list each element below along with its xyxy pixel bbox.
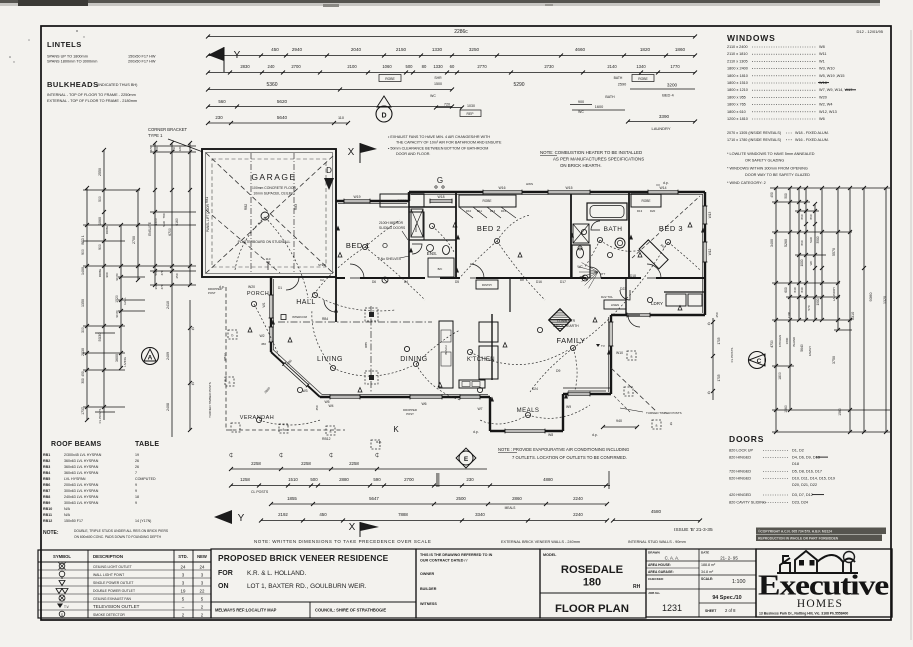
svg-text:RB3: RB3: [43, 465, 50, 469]
svg-text:D15: D15: [501, 209, 507, 213]
svg-text:INTERCOM: INTERCOM: [292, 315, 308, 319]
svg-text:1860: 1860: [675, 47, 686, 52]
svg-text:4580: 4580: [651, 509, 662, 514]
svg-text:2110 x 1810: 2110 x 1810: [727, 52, 748, 56]
svg-text:1800: 1800: [778, 372, 782, 380]
svg-text:BED 1: BED 1: [81, 235, 85, 244]
svg-text:RB9: RB9: [43, 501, 50, 505]
pantry: [476, 280, 498, 289]
svg-text:500: 500: [310, 477, 318, 482]
svg-text:D10, D11, D14, D15, D19: D10, D11, D14, D15, D19: [792, 477, 835, 481]
interior wall bed2/bath: [570, 192, 572, 278]
svg-text:SHR: SHR: [162, 221, 166, 227]
svg-text:ROOF BEAMS: ROOF BEAMS: [51, 441, 101, 448]
svg-text:2830: 2830: [240, 64, 250, 69]
svg-text:DOUBLE POWER OUTLET: DOUBLE POWER OUTLET: [93, 589, 135, 593]
svg-text:450: 450: [770, 192, 774, 198]
svg-text:AREA HOUSE:: AREA HOUSE:: [648, 563, 671, 567]
svg-text:D3, D7, D12: D3, D7, D12: [792, 493, 813, 497]
svg-text:300: 300: [81, 378, 85, 384]
svg-text:D13: D13: [637, 209, 643, 213]
svg-text:720 HINGED: 720 HINGED: [729, 470, 751, 474]
svg-text:d.p.: d.p.: [376, 440, 382, 444]
svg-text:300: 300: [81, 327, 85, 333]
svg-text:860: 860: [800, 214, 804, 219]
legend symbols: [59, 563, 65, 569]
svg-text:CL POSTS: CL POSTS: [98, 409, 102, 424]
svg-text:420 HINGED: 420 HINGED: [729, 493, 751, 497]
garage ceiling dash-dot joists: [250, 153, 252, 274]
svg-text:2150: 2150: [396, 47, 407, 52]
kitchen sink unit: [459, 380, 485, 388]
kitchen/family divider wall: [491, 314, 493, 380]
svg-text:2240: 2240: [573, 496, 583, 501]
svg-text:STEP: STEP: [318, 263, 326, 267]
svg-text:5260: 5260: [784, 239, 788, 247]
svg-text:LIVING: LIVING: [123, 356, 127, 367]
svg-text:22: 22: [200, 589, 205, 594]
svg-text:AS PER MANUFACTURES SPECIFI: AS PER MANUFACTURES SPECIFICATIONS: [553, 157, 644, 162]
bath tub: [587, 203, 627, 220]
svg-text:D5: D5: [455, 280, 459, 284]
svg-text:450: 450: [319, 512, 327, 517]
front wall (porch side): [270, 277, 272, 352]
title block section 4: drawn/date grid: [646, 549, 756, 617]
svg-text:D: D: [381, 113, 386, 120]
right CL posts chain (meals side): [712, 318, 714, 400]
svg-text:450: 450: [261, 342, 266, 346]
right vertical dimension chains: [775, 188, 777, 432]
svg-text:10mm SUPACEIL CEILING: 10mm SUPACEIL CEILING: [253, 192, 295, 196]
svg-text:W20: W20: [248, 285, 255, 289]
svg-text:360x63 LVL HYSPAN: 360x63 LVL HYSPAN: [64, 471, 99, 475]
svg-text:TABLE: TABLE: [135, 441, 159, 448]
svg-text:WC: WC: [809, 261, 813, 266]
svg-text:OWNER: OWNER: [420, 572, 434, 576]
svg-text:RB10: RB10: [43, 507, 52, 511]
svg-text:NEW: NEW: [197, 554, 207, 559]
svg-text:300x63 LVL HYSPAN: 300x63 LVL HYSPAN: [64, 489, 99, 493]
svg-text:470: 470: [160, 270, 164, 275]
svg-text:6160: 6160: [175, 218, 179, 226]
svg-text:K.R. & L. HOLLAND.: K.R. & L. HOLLAND.: [247, 570, 307, 577]
svg-text:620 HINGED: 620 HINGED: [729, 477, 751, 481]
family right wall: [610, 315, 612, 394]
svg-text:9: 9: [135, 489, 137, 493]
svg-text:1340: 1340: [636, 64, 646, 69]
svg-text:3500: 3500: [816, 236, 820, 243]
svg-text:780: 780: [162, 213, 166, 218]
svg-text:CL POSTS: CL POSTS: [251, 490, 269, 494]
svg-text:ROSEDALE: ROSEDALE: [561, 564, 624, 576]
wiring dashed curves: [265, 217, 308, 298]
svg-text:CORNER BRACKET: CORNER BRACKET: [148, 127, 188, 132]
svg-text:18: 18: [135, 495, 139, 499]
svg-text:* WINDOWS WITHIN 300mm FROM O: * WINDOWS WITHIN 300mm FROM OPENING: [727, 167, 808, 171]
W3 window on diagonal wall: [282, 362, 309, 387]
svg-text:LINEN: LINEN: [611, 303, 619, 307]
svg-text:110: 110: [172, 146, 176, 151]
svg-text:2410: 2410: [166, 301, 170, 309]
svg-text:2100H MIRROR: 2100H MIRROR: [379, 221, 404, 225]
hall/living dash-dot beam RB4: [278, 321, 432, 323]
svg-text:1800: 1800: [785, 337, 789, 344]
svg-text:W2, W4: W2, W4: [819, 103, 833, 107]
svg-text:470: 470: [149, 146, 153, 151]
svg-text:NOTE:: NOTE:: [43, 530, 59, 536]
svg-text:b: b: [232, 334, 234, 338]
svg-text:W8: W8: [819, 45, 825, 49]
svg-text:ROBE: ROBE: [98, 269, 102, 278]
svg-text:90 80: 90 80: [115, 310, 119, 317]
svg-text:3750: 3750: [832, 356, 836, 364]
svg-text:W13: W13: [708, 212, 712, 219]
svg-text:D8: D8: [520, 278, 524, 282]
svg-text:W1: W1: [819, 59, 825, 63]
svg-text:BENCH: BENCH: [444, 345, 448, 354]
svg-text:MODEL: MODEL: [543, 553, 557, 557]
svg-text:600: 600: [784, 287, 788, 293]
svg-text:a: a: [229, 381, 231, 385]
svg-text:NOTE : PROVIDE EVAPOURATIVE: NOTE : PROVIDE EVAPOURATIVE AIR CONDITIO…: [498, 447, 629, 452]
svg-text:₵: ₵: [192, 381, 195, 386]
svg-text:THIS IS THE DRAWING REFERRED T: THIS IS THE DRAWING REFERRED TO IN: [420, 553, 493, 557]
svg-text:230: 230: [466, 477, 474, 482]
svg-text:SPANS UP TO 1800mm: SPANS UP TO 1800mm: [47, 55, 88, 59]
svg-text:4500: 4500: [154, 218, 158, 226]
svg-text:N/A: N/A: [64, 507, 71, 511]
svg-text:5640: 5640: [800, 344, 804, 352]
svg-text:SCALE:: SCALE:: [701, 577, 713, 581]
svg-text:W20: W20: [819, 95, 827, 99]
svg-text:W12: W12: [708, 249, 712, 256]
right chain connector ticks: [770, 187, 890, 189]
svg-text:INTERNAL - TOP OF FLOOR TO FRA: INTERNAL - TOP OF FLOOR TO FRAME - 2250m…: [47, 93, 136, 97]
svg-text:ON BRICK HEARTH.: ON BRICK HEARTH.: [560, 163, 602, 168]
svg-text:TELEVISION OUTLET: TELEVISION OUTLET: [93, 604, 140, 609]
svg-text:LVL HYSPAN: LVL HYSPAN: [64, 477, 86, 481]
svg-text:570: 570: [807, 305, 811, 310]
bed3 rotated furniture: [639, 240, 668, 269]
svg-text:240x63 LVL HYSPAN: 240x63 LVL HYSPAN: [64, 495, 99, 499]
meals terrace dashed lines: [611, 368, 657, 412]
svg-text:PANTRY: PANTRY: [482, 283, 493, 287]
family/meals step walls: [563, 393, 611, 395]
svg-text:• EXHAUST FANS TO HAVE MIN.: • EXHAUST FANS TO HAVE MIN. 4 AIR CHANGE…: [388, 135, 490, 139]
svg-text:REPRODUCTION IN WHOLE OR PART: REPRODUCTION IN WHOLE OR PART FORBIDDEN: [758, 537, 839, 541]
svg-text:T.V.: T.V.: [64, 605, 69, 609]
svg-text:W16 - FIXED ALUM.: W16 - FIXED ALUM.: [795, 138, 829, 142]
svg-text:6700: 6700: [168, 228, 172, 236]
datum circle C: [749, 352, 766, 369]
svg-text:9: 9: [135, 501, 137, 505]
svg-text:₵: ₵: [708, 321, 711, 326]
svg-text:NOTE: WRITTEN DIMENSIONS T: NOTE: WRITTEN DIMENSIONS TO TAKE PRECEDE…: [254, 539, 431, 544]
svg-text:2040: 2040: [351, 47, 362, 52]
svg-text:W3, W10: W3, W10: [819, 67, 835, 71]
svg-text:Y: Y: [234, 50, 241, 61]
svg-text:1350: 1350: [81, 299, 85, 307]
svg-text:820 LOCK UP: 820 LOCK UP: [729, 449, 754, 453]
svg-text:©COPYRIGHT A.C.N. 005 734 57: ©COPYRIGHT A.C.N. 005 734 579. H.B.F. M3…: [758, 530, 832, 534]
svg-text:13 Business Park Dr., Notting: 13 Business Park Dr., Notting Hill, Vic.…: [759, 612, 848, 616]
svg-text:5290: 5290: [513, 82, 524, 88]
svg-text:a: a: [283, 428, 285, 432]
ceiling light outlets: [362, 244, 367, 249]
svg-text:900: 900: [81, 249, 85, 255]
svg-text:(INDICATED THUS BH): (INDICATED THUS BH): [97, 83, 138, 87]
svg-text:D17: D17: [560, 280, 566, 284]
svg-text:2 of 8: 2 of 8: [725, 608, 736, 613]
svg-text:d.p.: d.p.: [473, 430, 479, 434]
svg-text:KITCHEN: KITCHEN: [778, 335, 782, 347]
svg-text:BRICK HEARTH: BRICK HEARTH: [553, 324, 579, 328]
svg-text:₵: ₵: [279, 452, 283, 459]
svg-text:HALL: HALL: [123, 297, 127, 305]
svg-text:560: 560: [218, 99, 226, 104]
ens/wc block walls: [409, 206, 456, 208]
svg-text:FOR: FOR: [218, 570, 233, 577]
svg-text:Executive: Executive: [758, 571, 888, 602]
svg-text:ROBE: ROBE: [105, 226, 109, 235]
left vertical dimension chains: [86, 188, 88, 420]
svg-text:1710 x 1780 (INSIDE REVEALS): 1710 x 1780 (INSIDE REVEALS): [727, 138, 781, 142]
svg-text:d.p.: d.p.: [592, 433, 598, 437]
svg-text:5030: 5030: [97, 332, 102, 342]
svg-text:W10: W10: [616, 351, 623, 355]
svg-text:a: a: [628, 391, 630, 395]
svg-text:DOORS: DOORS: [729, 434, 764, 444]
svg-text:OUR CONTRACT DATED / /: OUR CONTRACT DATED / /: [420, 559, 467, 563]
svg-text:d.p.: d.p.: [663, 181, 669, 185]
svg-text:2140: 2140: [607, 64, 617, 69]
svg-text:D9: D9: [556, 369, 560, 373]
svg-text:E: E: [464, 456, 469, 463]
svg-text:a: a: [656, 424, 658, 428]
svg-text:BED 4: BED 4: [662, 93, 674, 98]
svg-text:B/C: B/C: [438, 267, 443, 271]
svg-text:SMOKE DETECTOR: SMOKE DETECTOR: [93, 613, 125, 617]
svg-text:DRAWN: DRAWN: [648, 551, 660, 555]
svg-text:1100: 1100: [787, 311, 791, 318]
svg-text:110: 110: [266, 257, 271, 261]
linen: [604, 300, 626, 309]
svg-text:26: 26: [135, 459, 139, 463]
svg-text:W18 - FIXED ALUM.: W18 - FIXED ALUM.: [795, 131, 829, 135]
misc small outlets (double power): [338, 253, 342, 258]
svg-text:MEALS: MEALS: [505, 506, 516, 510]
svg-text:₵: ₵: [670, 422, 673, 426]
svg-text:SYMBOL: SYMBOL: [53, 554, 71, 559]
svg-text:ROBE: ROBE: [482, 199, 491, 203]
svg-text:ENS.: ENS.: [427, 251, 438, 256]
svg-text:1400: 1400: [81, 267, 85, 275]
bed2 robe: [459, 195, 516, 207]
svg-text:W11: W11: [819, 52, 827, 56]
kitchen/family divider upper: [509, 278, 511, 312]
living bay diagonal wall: [271, 352, 320, 397]
svg-text:3390: 3390: [659, 114, 670, 119]
svg-text:3200: 3200: [667, 83, 678, 88]
svg-text:2700: 2700: [291, 64, 301, 69]
svg-text:1560: 1560: [838, 408, 842, 416]
svg-text:1000: 1000: [800, 259, 804, 266]
svg-text:450: 450: [315, 405, 319, 410]
svg-text:2070 x 1305 (INSIDE REVEALS): 2070 x 1305 (INSIDE REVEALS): [727, 131, 781, 135]
svg-text:D12 - 12/01/95: D12 - 12/01/95: [857, 29, 884, 34]
svg-text:LAUNDRY: LAUNDRY: [832, 287, 836, 301]
svg-text:₵: ₵: [375, 452, 379, 459]
svg-text:SINGLE POWER OUTLET: SINGLE POWER OUTLET: [93, 581, 134, 585]
svg-text:LOT 1, BAXTER RD., GOULBUR: LOT 1, BAXTER RD., GOULBURN WEIR.: [247, 583, 367, 590]
svg-text:D1, D2: D1, D2: [792, 449, 804, 453]
svg-text:INTERNAL STUD WALLS - 90mm: INTERNAL STUD WALLS - 90mm: [628, 540, 686, 544]
svg-text:4880: 4880: [543, 477, 553, 482]
svg-text:26: 26: [135, 465, 139, 469]
svg-text:300x63 LVL HYSPAN: 300x63 LVL HYSPAN: [64, 501, 99, 505]
svg-text:EXTERNAL - TOP OF FLOOR TO FRA: EXTERNAL - TOP OF FLOOR TO FRAME - 2180m…: [47, 99, 137, 103]
scan specks left margin: [9, 56, 11, 58]
svg-text:HALL: HALL: [296, 299, 316, 306]
svg-text:250: 250: [715, 312, 719, 317]
svg-text:2110 x 1305: 2110 x 1305: [727, 59, 748, 63]
svg-text:CL POSTS: CL POSTS: [730, 348, 734, 363]
svg-text:1820: 1820: [640, 47, 651, 52]
svg-text:2730: 2730: [544, 64, 554, 69]
datum circle E: [456, 448, 476, 468]
svg-text:900: 900: [578, 100, 584, 104]
svg-text:500: 500: [98, 196, 102, 202]
scan smudge tick: [436, 473, 440, 487]
svg-text:COUNCIL: SHIRE OF STRATHBOGIE: COUNCIL: SHIRE OF STRATHBOGIE: [315, 608, 386, 613]
svg-text:LINTELS: LINTELS: [47, 40, 82, 49]
svg-text:200x50 F17 HW: 200x50 F17 HW: [128, 60, 156, 64]
title block section 2: contract: [416, 549, 540, 618]
svg-text:W3: W3: [302, 389, 307, 393]
svg-text:470: 470: [160, 284, 164, 289]
svg-text:560: 560: [154, 270, 158, 275]
svg-text:NOTE: COMBUSTION HEATER TO: NOTE: COMBUSTION HEATER TO BE INSTALLED: [540, 150, 642, 155]
svg-text:BATH: BATH: [605, 95, 615, 99]
svg-text:* LOWLITE WINDOWS TO HAVE 5mm: * LOWLITE WINDOWS TO HAVE 5mm ANNEALED: [727, 152, 815, 156]
svg-text:2550: 2550: [98, 168, 102, 176]
svg-text:HWS: HWS: [526, 182, 533, 186]
svg-text:1600: 1600: [595, 105, 603, 109]
window glazing marks on exterior walls: [344, 199, 370, 203]
scan faint right edge line: [910, 30, 912, 640]
svg-text:1800 x 1810: 1800 x 1810: [727, 74, 748, 78]
svg-text:C2: C2: [320, 278, 324, 282]
svg-text:BED 3: BED 3: [659, 224, 683, 233]
svg-text:RB12: RB12: [322, 437, 331, 441]
svg-text:W14: W14: [660, 186, 667, 190]
svg-text:1800 x 1210: 1800 x 1210: [727, 88, 748, 92]
svg-text:SPANS 1800mm TO 3000mm: SPANS 1800mm TO 3000mm: [47, 60, 97, 64]
svg-text:2192: 2192: [278, 512, 288, 517]
svg-text:1060: 1060: [382, 64, 392, 69]
svg-text:CEILING EXHAUST FAN: CEILING EXHAUST FAN: [93, 597, 132, 601]
smoke detector / fan symbols: [382, 277, 388, 283]
svg-text:34.8 m²: 34.8 m²: [701, 570, 714, 574]
svg-text:250: 250: [175, 273, 179, 278]
svg-text:2/300x45 LVL HYSPAN: 2/300x45 LVL HYSPAN: [64, 453, 102, 457]
svg-text:REP: REP: [467, 112, 475, 116]
svg-text:5570: 5570: [832, 248, 836, 256]
svg-text:BUILDER: BUILDER: [420, 587, 437, 591]
svg-text:N/A: N/A: [64, 513, 71, 517]
svg-text:2940: 2940: [292, 47, 303, 52]
svg-text:POST: POST: [208, 291, 216, 295]
svg-text:FAMILY: FAMILY: [808, 346, 812, 356]
svg-text:360x63 LVL HYSPAN: 360x63 LVL HYSPAN: [64, 459, 99, 463]
svg-text:D23: D23: [620, 287, 626, 291]
svg-text:230: 230: [215, 115, 223, 120]
garage dashed roof diagonals: [206, 153, 333, 273]
svg-text:W12, W13: W12, W13: [819, 110, 837, 114]
svg-text:LDRY: LDRY: [651, 301, 663, 306]
kitchen fridge/pantry column right: [479, 322, 498, 342]
svg-text:2860: 2860: [512, 496, 522, 501]
door swing arcs: [350, 264, 364, 278]
title block section 5: Executive Homes logo: [756, 549, 892, 617]
svg-text:W4: W4: [328, 404, 333, 408]
svg-text:WINDOWS: WINDOWS: [727, 33, 776, 43]
svg-text:TYPE 1: TYPE 1: [148, 133, 163, 138]
svg-text:D20: D20: [650, 209, 656, 213]
svg-text:2258: 2258: [251, 461, 261, 466]
svg-text:C. A. A.: C. A. A.: [665, 556, 680, 561]
svg-text:RB5: RB5: [364, 342, 368, 348]
svg-text:188.8 m²: 188.8 m²: [701, 563, 716, 567]
svg-text:24: 24: [181, 565, 186, 570]
logo house icon: [777, 551, 858, 573]
svg-text:STD.: STD.: [178, 554, 188, 559]
svg-text:RB8: RB8: [43, 495, 50, 499]
svg-text:7888: 7888: [398, 512, 408, 517]
svg-text:CHECKED: CHECKED: [648, 577, 664, 581]
svg-text:590: 590: [373, 477, 381, 482]
svg-text:4730: 4730: [770, 340, 774, 348]
svg-text:DOUBLE, TRIPLE STUDS UNDER ALL: DOUBLE, TRIPLE STUDS UNDER ALL RB'S ON B…: [74, 529, 169, 533]
corridor wall bedrooms: [336, 277, 345, 279]
svg-text:2110 x 2400: 2110 x 2400: [727, 45, 748, 49]
svg-text:2500: 2500: [456, 496, 466, 501]
svg-text:1560: 1560: [784, 405, 788, 413]
svg-text:2258: 2258: [349, 461, 359, 466]
sliding door dashes family->meals: [563, 387, 611, 389]
svg-text:1705: 1705: [717, 337, 721, 344]
legend table frame: [38, 550, 211, 618]
svg-text:360: 360: [155, 146, 159, 151]
svg-text:SHEET: SHEET: [705, 609, 717, 613]
laundry bottom wall: [611, 314, 705, 316]
title block section 3: model: [540, 549, 646, 618]
svg-text:W19: W19: [354, 195, 361, 199]
svg-text:RB12: RB12: [43, 519, 52, 523]
svg-text:1800 x 955: 1800 x 955: [727, 95, 746, 99]
svg-text:2700: 2700: [132, 236, 136, 244]
svg-text:SLIDING DOORS: SLIDING DOORS: [379, 226, 406, 230]
svg-text:POST: POST: [406, 412, 414, 416]
svg-text:EXTERNAL BRICK VENEER WALLS -: EXTERNAL BRICK VENEER WALLS - 240mm: [501, 540, 580, 544]
copyright block: [756, 528, 886, 535]
svg-text:W6: W6: [819, 117, 825, 121]
svg-text:* WIND CATEGORY: 2: * WIND CATEGORY: 2: [727, 181, 766, 185]
svg-text:1800 x 610: 1800 x 610: [727, 110, 746, 114]
svg-text:FLOOR PLAN: FLOOR PLAN: [555, 603, 629, 615]
svg-text:1500: 1500: [434, 82, 442, 86]
datum circle D: [376, 106, 392, 122]
